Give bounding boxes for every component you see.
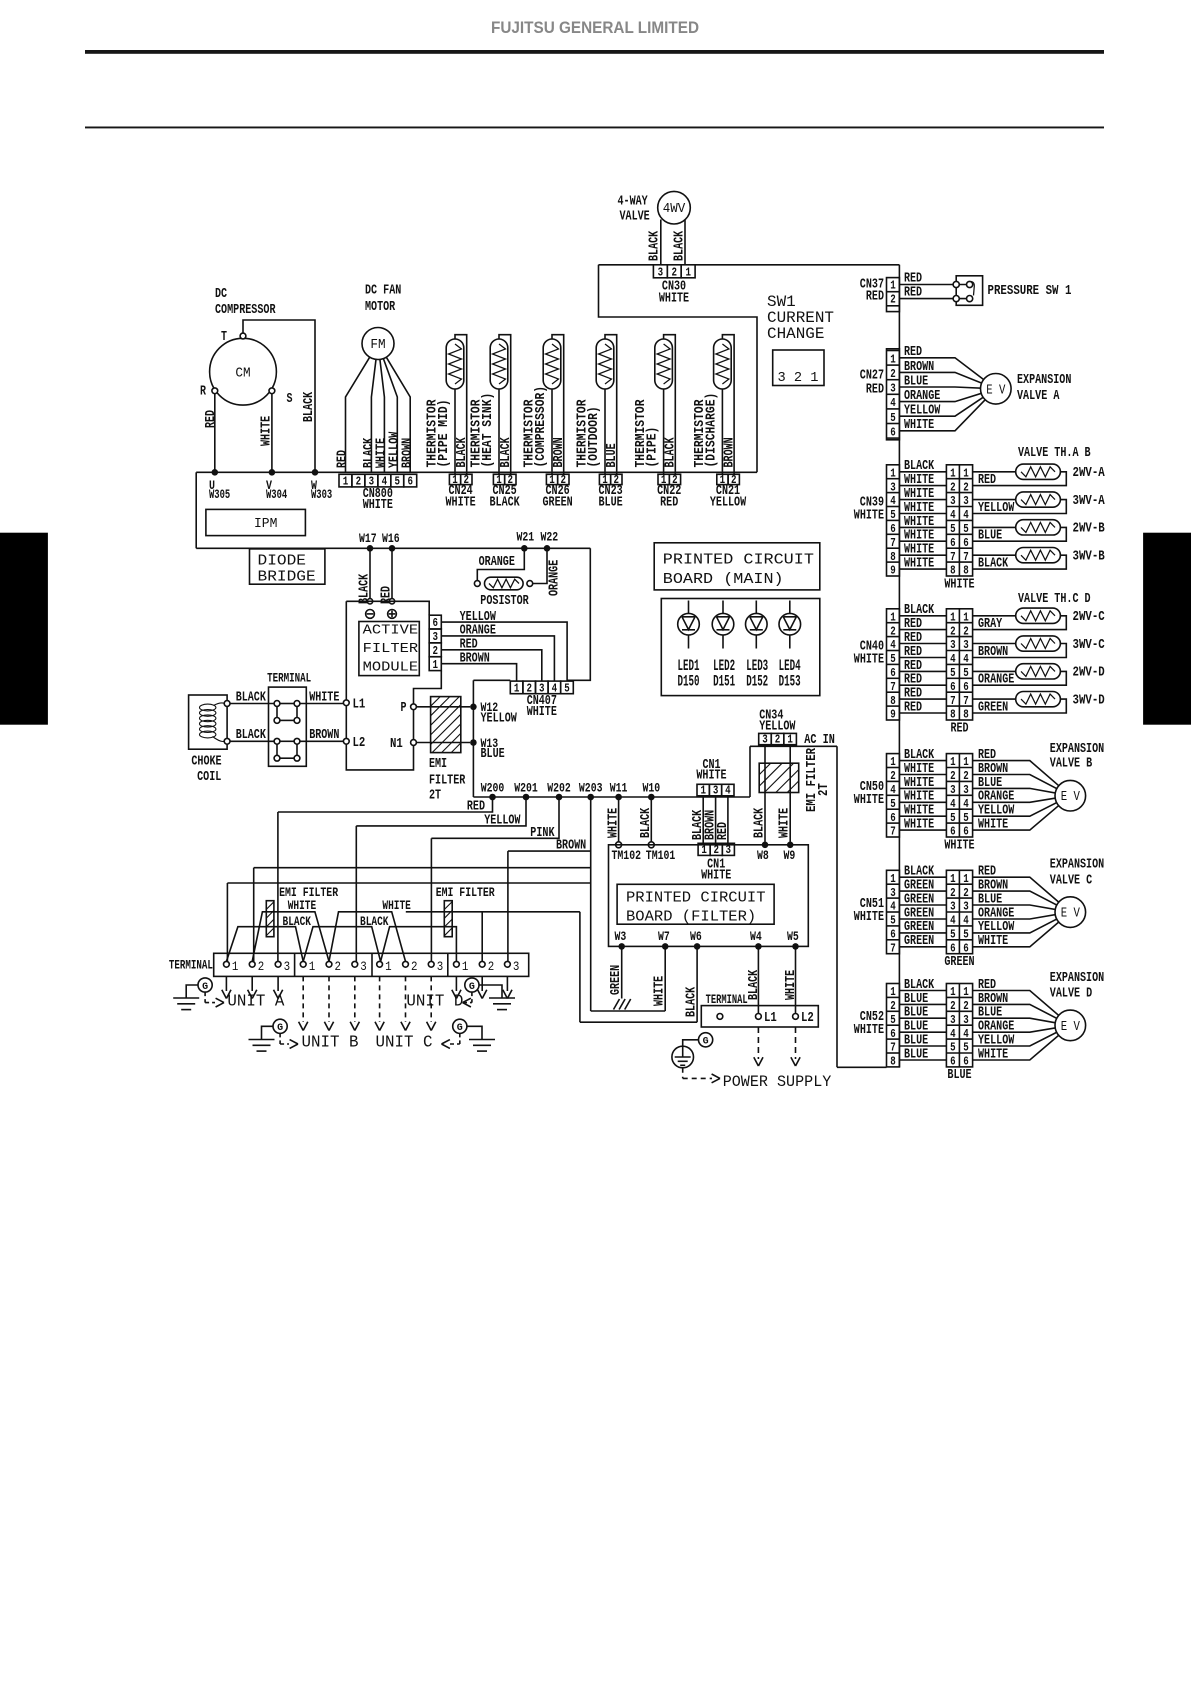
svg-text:3: 3 [963,639,969,652]
svg-text:3: 3 [432,631,438,644]
svg-text:7: 7 [890,1042,896,1055]
svg-text:D153: D153 [779,672,801,690]
svg-text:3: 3 [513,959,520,974]
svg-text:PRINTED CIRCUIT: PRINTED CIRCUIT [626,890,766,907]
svg-text:WHITE: WHITE [978,933,1008,949]
svg-text:YELLOW: YELLOW [978,500,1015,516]
svg-text:WHITE: WHITE [854,507,884,523]
svg-text:POWER SUPPLY: POWER SUPPLY [723,1073,832,1091]
svg-text:1: 1 [462,959,469,974]
svg-text:W5: W5 [787,930,799,944]
svg-text:3: 3 [713,785,719,798]
svg-text:BLACK: BLACK [638,807,654,838]
svg-text:W22: W22 [541,530,559,544]
svg-text:WHITE: WHITE [783,970,799,1000]
svg-text:W305: W305 [209,488,230,502]
svg-text:3WV-D: 3WV-D [1073,692,1105,708]
svg-text:2: 2 [432,645,438,658]
svg-text:BOARD (FILTER): BOARD (FILTER) [626,909,756,926]
svg-text:GREEN: GREEN [608,965,624,995]
svg-text:D150: D150 [678,672,700,690]
svg-text:3WV-C: 3WV-C [1073,637,1106,653]
svg-text:BROWN: BROWN [460,650,490,666]
svg-text:TERMINAL: TERMINAL [267,671,311,686]
svg-text:FILTER: FILTER [429,773,466,789]
svg-text:G: G [703,1036,709,1048]
svg-text:W201: W201 [514,781,538,795]
svg-text:1: 1 [963,467,969,480]
svg-text:1: 1 [950,986,956,999]
svg-text:PRESSURE SW 1: PRESSURE SW 1 [988,283,1072,299]
svg-text:4: 4 [963,653,969,666]
svg-text:WHITE: WHITE [904,556,934,572]
svg-text:YELLOW: YELLOW [710,494,747,510]
svg-text:W17: W17 [359,532,377,546]
svg-text:2: 2 [963,770,969,783]
svg-text:1: 1 [950,467,956,480]
svg-text:L1: L1 [353,697,366,713]
svg-text:DIODE: DIODE [258,553,307,570]
svg-text:TERMINAL: TERMINAL [706,992,748,1007]
svg-text:5: 5 [890,653,896,666]
svg-text:FM: FM [370,337,385,353]
svg-text:R: R [200,383,206,399]
svg-text:4: 4 [890,901,896,914]
svg-text:BLACK: BLACK [283,915,312,929]
svg-text:DC FAN: DC FAN [365,283,401,299]
svg-text:YELLOW: YELLOW [904,403,941,419]
svg-text:UNIT A: UNIT A [227,992,285,1011]
svg-text:W16: W16 [382,532,400,546]
svg-text:RED: RED [904,699,922,715]
svg-text:4WV: 4WV [663,201,686,217]
svg-text:RED: RED [904,344,922,360]
svg-text:5: 5 [950,667,956,680]
svg-text:WHITE: WHITE [854,651,884,667]
svg-text:MODULE: MODULE [363,660,418,676]
svg-text:2: 2 [890,293,896,306]
svg-text:7: 7 [950,551,956,564]
svg-text:1: 1 [232,959,239,974]
svg-text:WHITE: WHITE [904,417,934,433]
svg-text:RED: RED [866,289,884,305]
svg-text:WHITE: WHITE [904,817,934,833]
svg-text:G: G [202,981,208,993]
svg-text:L2: L2 [801,1010,814,1026]
svg-text:COIL: COIL [197,769,221,785]
svg-text:UNIT B: UNIT B [302,1034,359,1053]
svg-text:VALVE TH.A B: VALVE TH.A B [1018,445,1091,461]
svg-text:EMI FILTER: EMI FILTER [436,885,495,900]
svg-text:W203: W203 [579,781,603,795]
svg-text:N1: N1 [390,736,403,752]
svg-text:8: 8 [890,695,896,708]
svg-text:BLACK: BLACK [301,391,317,422]
svg-text:G: G [469,981,475,993]
svg-text:FILTER: FILTER [363,641,419,657]
svg-text:RED: RED [203,410,219,428]
svg-text:4: 4 [725,785,731,798]
svg-text:(COMPRESSOR): (COMPRESSOR) [533,386,549,468]
svg-text:TM101: TM101 [646,849,676,863]
svg-text:BROWN: BROWN [400,438,416,468]
svg-text:W4: W4 [750,930,762,944]
svg-text:5: 5 [950,929,956,942]
svg-text:BLACK: BLACK [751,807,767,838]
svg-text:(PIPE): (PIPE) [645,427,661,468]
svg-text:WHITE: WHITE [978,817,1008,833]
svg-text:CHOKE: CHOKE [191,754,221,770]
svg-text:4: 4 [950,653,956,666]
svg-text:AC IN: AC IN [804,732,835,748]
svg-text:WHITE: WHITE [854,792,884,808]
svg-text:RED: RED [950,720,968,736]
svg-text:GREEN: GREEN [978,699,1008,715]
svg-text:UNIT C: UNIT C [376,1034,433,1053]
svg-text:1: 1 [385,959,392,974]
svg-text:BLACK: BLACK [498,437,514,468]
svg-text:6: 6 [890,1028,896,1041]
svg-text:BOARD (MAIN): BOARD (MAIN) [663,571,784,588]
svg-text:(HEAT SINK): (HEAT SINK) [480,393,496,468]
svg-text:BROWN: BROWN [551,437,567,467]
svg-text:W8: W8 [757,849,769,863]
svg-text:BROWN: BROWN [978,644,1008,660]
svg-text:6: 6 [890,812,896,825]
svg-text:W11: W11 [610,781,628,795]
svg-text:3: 3 [950,901,956,914]
svg-text:2: 2 [890,770,896,783]
svg-text:WHITE: WHITE [854,1022,884,1038]
svg-text:D152: D152 [746,672,768,690]
svg-text:RED: RED [715,822,731,840]
svg-text:ORANGE: ORANGE [978,672,1014,688]
svg-text:4: 4 [950,915,956,928]
svg-text:BLACK: BLACK [671,230,687,261]
svg-text:1: 1 [890,279,896,292]
svg-text:3: 3 [950,495,956,508]
svg-text:3: 3 [963,1014,969,1027]
svg-text:4: 4 [963,798,969,811]
svg-text:BROWN: BROWN [721,437,737,467]
svg-text:EMI: EMI [429,756,447,772]
svg-text:TERMINAL: TERMINAL [169,958,213,973]
svg-text:8: 8 [890,1056,896,1069]
svg-text:YELLOW: YELLOW [481,711,518,727]
svg-text:6: 6 [950,537,956,550]
svg-text:RED: RED [335,450,351,468]
svg-text:7: 7 [963,551,969,564]
svg-text:WHITE: WHITE [288,899,317,913]
svg-text:(OUTDOOR): (OUTDOOR) [586,406,602,467]
svg-text:1: 1 [963,611,969,624]
svg-text:9: 9 [890,565,896,578]
svg-text:BLUE: BLUE [904,1046,928,1062]
svg-text:W9: W9 [784,849,796,863]
svg-text:G: G [457,1022,463,1034]
svg-text:4: 4 [963,1028,969,1041]
svg-text:2: 2 [963,887,969,900]
svg-text:9: 9 [890,709,896,722]
svg-text:YELLOW: YELLOW [759,718,796,734]
svg-text:5: 5 [963,667,969,680]
svg-text:4: 4 [950,509,956,522]
svg-text:YELLOW: YELLOW [484,813,521,829]
svg-text:2: 2 [335,959,342,974]
svg-text:6: 6 [963,537,969,550]
svg-text:1: 1 [890,467,896,480]
svg-text:1: 1 [963,873,969,886]
svg-text:4: 4 [950,798,956,811]
svg-text:VALVE: VALVE [620,209,650,225]
svg-text:WHITE: WHITE [659,290,689,306]
svg-text:CM: CM [235,366,250,382]
svg-text:1: 1 [950,756,956,769]
svg-text:5: 5 [564,682,570,695]
svg-text:6: 6 [890,523,896,536]
svg-text:2: 2 [950,770,956,783]
svg-text:WHITE: WHITE [696,768,726,784]
svg-text:3: 3 [950,784,956,797]
svg-text:3: 3 [284,959,291,974]
svg-text:5: 5 [963,1042,969,1055]
svg-text:1: 1 [890,986,896,999]
svg-text:W3: W3 [615,930,627,944]
svg-text:2: 2 [890,625,896,638]
svg-text:4: 4 [950,1028,956,1041]
svg-text:WHITE: WHITE [258,416,274,446]
svg-text:GREEN: GREEN [944,954,974,970]
svg-text:BLUE: BLUE [599,494,623,510]
svg-text:3: 3 [437,959,444,974]
svg-text:W7: W7 [658,930,670,944]
svg-text:VALVE D: VALVE D [1050,986,1092,1002]
svg-text:2: 2 [356,476,362,489]
svg-text:BLUE: BLUE [978,528,1002,544]
svg-text:3: 3 [963,495,969,508]
svg-text:6: 6 [890,929,896,942]
svg-text:1: 1 [963,756,969,769]
svg-text:WHITE: WHITE [605,808,621,838]
svg-text:VALVE TH.C D: VALVE TH.C D [1018,591,1091,607]
svg-text:3 2 1: 3 2 1 [778,370,819,386]
svg-text:T: T [221,329,227,345]
svg-text:W202: W202 [547,781,571,795]
svg-text:ORANGE: ORANGE [479,554,515,570]
svg-text:2: 2 [890,1000,896,1013]
svg-text:2: 2 [775,734,781,747]
svg-text:1: 1 [890,756,896,769]
svg-text:BROWN: BROWN [556,838,586,854]
svg-text:ACTIVE: ACTIVE [363,623,418,639]
svg-text:RED: RED [866,382,884,398]
svg-text:GRAY: GRAY [978,616,1003,632]
svg-text:7: 7 [950,695,956,708]
svg-text:1: 1 [950,611,956,624]
svg-text:8: 8 [890,551,896,564]
svg-text:2: 2 [963,1000,969,1013]
svg-text:1: 1 [950,873,956,886]
svg-text:BLUE: BLUE [481,746,505,762]
svg-text:BLUE: BLUE [604,443,620,467]
svg-text:5: 5 [950,812,956,825]
svg-text:4: 4 [963,915,969,928]
svg-text:2: 2 [950,887,956,900]
svg-text:2WV-A: 2WV-A [1073,465,1106,481]
svg-text:GREEN: GREEN [904,933,934,949]
svg-text:2: 2 [963,481,969,494]
svg-text:EMI FILTER: EMI FILTER [279,885,338,900]
svg-text:7: 7 [963,695,969,708]
svg-text:WHITE: WHITE [652,976,668,1006]
svg-text:2: 2 [258,959,265,974]
svg-text:2WV-D: 2WV-D [1073,665,1105,681]
svg-text:5: 5 [890,509,896,522]
svg-text:DC: DC [215,286,228,302]
svg-text:1: 1 [890,873,896,886]
svg-text:5: 5 [963,929,969,942]
svg-text:BROWN: BROWN [904,359,934,375]
svg-text:BLACK: BLACK [490,494,521,510]
svg-text:6: 6 [963,681,969,694]
svg-text:4-WAY: 4-WAY [618,194,649,210]
svg-text:PINK: PINK [530,825,555,841]
svg-text:IPM: IPM [254,516,277,532]
svg-text:BLACK: BLACK [684,986,700,1017]
svg-text:3: 3 [950,1014,956,1027]
svg-text:D151: D151 [713,672,735,690]
svg-text:WHITE: WHITE [944,576,974,592]
svg-text:ORANGE: ORANGE [904,388,940,404]
svg-text:RED: RED [978,472,996,488]
svg-text:BLUE: BLUE [904,373,928,389]
svg-text:4: 4 [890,784,896,797]
svg-text:2WV-B: 2WV-B [1073,521,1106,537]
svg-text:(PIPE MID): (PIPE MID) [436,400,452,468]
svg-text:2: 2 [713,844,719,857]
svg-text:WHITE: WHITE [382,899,411,913]
svg-text:BLACK: BLACK [978,556,1009,572]
svg-text:PRINTED CIRCUIT: PRINTED CIRCUIT [663,552,814,569]
svg-text:5: 5 [963,812,969,825]
svg-text:2: 2 [950,625,956,638]
svg-text:BLACK: BLACK [746,969,762,1000]
svg-text:W6: W6 [690,930,702,944]
svg-text:W10: W10 [642,781,660,795]
svg-text:1: 1 [514,682,520,695]
svg-text:FUJITSU GENERAL LIMITED: FUJITSU GENERAL LIMITED [491,18,699,37]
svg-text:WHITE: WHITE [701,868,731,884]
svg-text:BLACK: BLACK [646,230,662,261]
svg-text:G: G [277,1022,283,1034]
svg-text:3: 3 [963,784,969,797]
svg-text:6: 6 [890,667,896,680]
svg-text:L2: L2 [353,735,366,751]
svg-text:ORANGE: ORANGE [546,560,562,596]
svg-text:E V: E V [1061,906,1081,922]
svg-text:WHITE: WHITE [446,494,476,510]
svg-text:S: S [287,391,293,407]
svg-text:5: 5 [950,1042,956,1055]
svg-text:E V: E V [1061,1019,1081,1035]
svg-text:4: 4 [890,495,896,508]
svg-text:6: 6 [407,476,413,489]
svg-text:WHITE: WHITE [978,1046,1008,1062]
svg-text:6: 6 [950,681,956,694]
svg-text:3: 3 [950,639,956,652]
svg-text:3: 3 [963,901,969,914]
svg-text:3: 3 [360,959,367,974]
svg-text:WHITE: WHITE [363,497,393,513]
svg-text:VALVE C: VALVE C [1050,872,1093,888]
svg-text:1: 1 [685,266,691,279]
svg-text:W303: W303 [311,488,332,502]
svg-text:VALVE B: VALVE B [1050,756,1093,772]
svg-text:1: 1 [963,986,969,999]
svg-text:1: 1 [343,476,349,489]
svg-text:W21: W21 [517,530,535,544]
svg-text:2T: 2T [429,788,441,804]
svg-text:RED: RED [467,799,485,815]
svg-text:3: 3 [890,481,896,494]
svg-text:3WV-A: 3WV-A [1073,493,1106,509]
svg-text:2: 2 [950,481,956,494]
svg-text:2WV-C: 2WV-C [1073,609,1106,625]
svg-text:MOTOR: MOTOR [365,299,396,315]
svg-text:GREEN: GREEN [543,494,573,510]
svg-text:VALVE A: VALVE A [1017,388,1060,404]
svg-text:4: 4 [963,509,969,522]
svg-text:5: 5 [890,798,896,811]
svg-text:E V: E V [1061,789,1081,805]
svg-text:7: 7 [890,826,896,839]
svg-text:2: 2 [488,959,495,974]
svg-text:1: 1 [890,611,896,624]
svg-text:2: 2 [963,625,969,638]
svg-text:1: 1 [309,959,316,974]
svg-text:7: 7 [890,537,896,550]
svg-text:3WV-B: 3WV-B [1073,549,1106,565]
svg-text:UNIT D: UNIT D [406,992,463,1011]
svg-text:W200: W200 [481,781,505,795]
svg-text:BRIDGE: BRIDGE [258,569,316,586]
svg-text:5: 5 [950,523,956,536]
svg-text:L1: L1 [764,1010,777,1026]
svg-text:1: 1 [700,785,706,798]
svg-text:EXPANSION: EXPANSION [1050,970,1104,986]
svg-text:E V: E V [986,382,1006,398]
svg-text:EXPANSION: EXPANSION [1050,857,1104,873]
svg-text:POSISTOR: POSISTOR [480,593,529,609]
svg-text:WHITE: WHITE [944,837,974,853]
svg-text:EMI FILTER: EMI FILTER [804,748,820,812]
svg-text:W304: W304 [266,488,288,502]
svg-text:(DISCHARGE): (DISCHARGE) [703,393,719,468]
svg-text:2: 2 [950,1000,956,1013]
svg-text:5: 5 [963,523,969,536]
svg-text:7: 7 [890,942,896,955]
svg-text:BLUE: BLUE [947,1067,971,1083]
svg-text:EXPANSION: EXPANSION [1017,372,1071,388]
svg-text:1: 1 [701,844,707,857]
svg-text:2: 2 [411,959,418,974]
svg-text:P: P [401,700,407,716]
svg-text:1: 1 [432,659,438,672]
svg-text:WHITE: WHITE [527,704,557,720]
svg-text:BLACK: BLACK [663,437,679,468]
svg-text:WHITE: WHITE [777,808,793,838]
svg-text:4: 4 [890,639,896,652]
